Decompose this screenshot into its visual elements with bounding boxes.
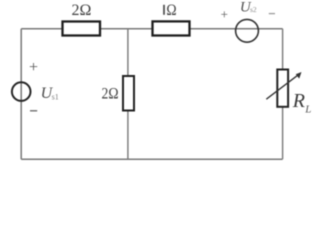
wire between R1 and R2 through node A [100, 28, 153, 30]
resistor R2 1ohm horizontal [153, 21, 190, 35]
svg-text:2Ω: 2Ω [72, 2, 92, 19]
wire from R2 through U_s2 to top-right corner [190, 28, 283, 30]
wire bottom [21, 158, 282, 160]
wire top left segment [21, 28, 62, 30]
source U_s1 circle [12, 82, 31, 101]
wire middle branch lower [127, 111, 129, 160]
svg-text:+: + [29, 59, 38, 76]
svg-text:s1: s1 [52, 92, 59, 101]
wire left branch vertical [20, 29, 22, 160]
svg-text:L: L [304, 104, 311, 116]
minus sign of U_s2 [269, 13, 275, 15]
label 1ohm for R2: narrow stroke for the 1 [163, 5, 165, 15]
wire right branch upper [282, 29, 284, 70]
resistor R1 2ohm horizontal [63, 22, 101, 36]
resistor R3 2ohm vertical [123, 76, 134, 111]
source U_s2 circle [236, 19, 259, 42]
arrow through RL [266, 75, 298, 99]
minus sign of U_s1 [30, 110, 37, 112]
svg-text:s2: s2 [250, 5, 257, 14]
svg-text:+: + [221, 6, 228, 21]
svg-text:R: R [292, 90, 305, 112]
svg-text:Ω: Ω [166, 2, 176, 19]
svg-text:2Ω: 2Ω [102, 86, 119, 103]
wire middle branch upper [127, 29, 129, 76]
resistor RL box [277, 70, 288, 107]
wire right branch lower [282, 107, 284, 159]
